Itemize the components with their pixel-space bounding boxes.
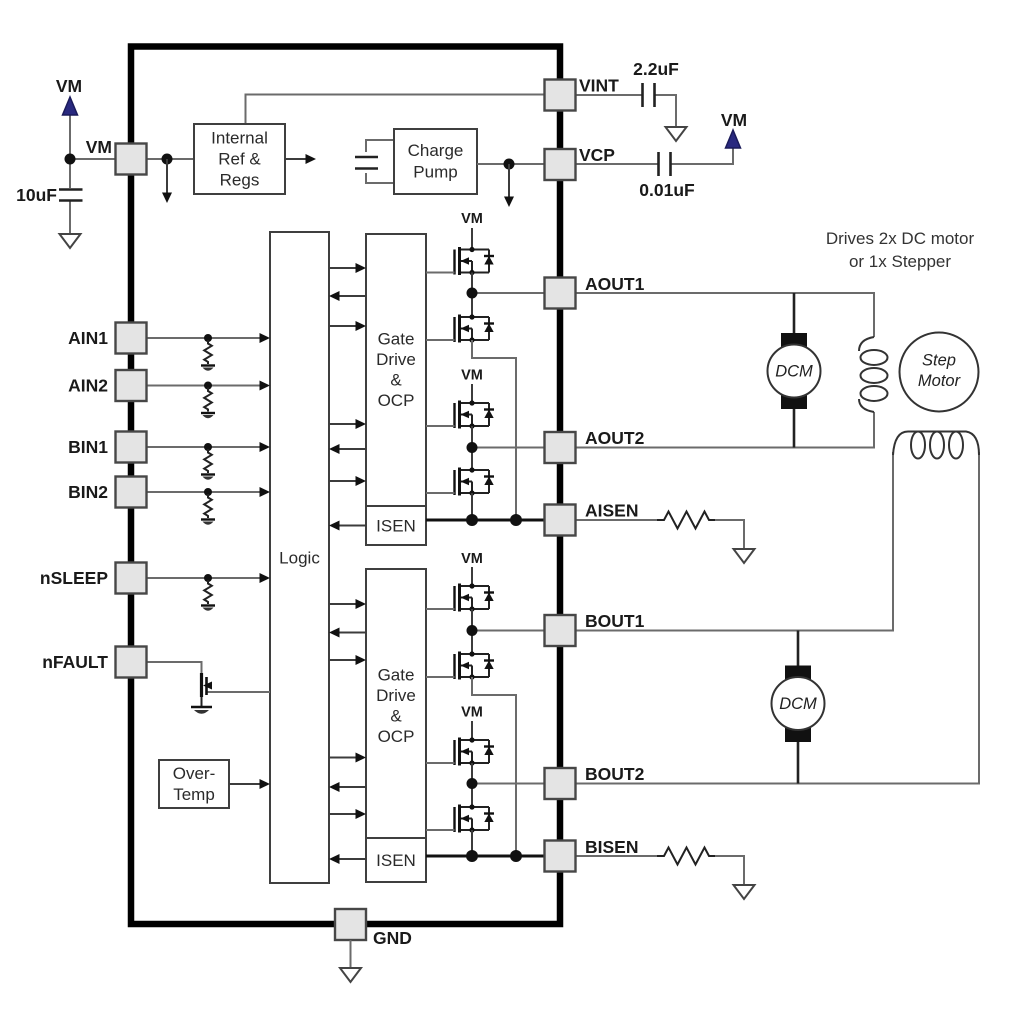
- inductor stepper winding B: [893, 432, 979, 459]
- svg-text:Temp: Temp: [173, 785, 215, 804]
- svg-text:BOUT2: BOUT2: [585, 764, 645, 784]
- svg-text:&: &: [390, 371, 402, 390]
- arrow VCP feed down: [508, 164, 510, 198]
- ground at GND pin: [340, 968, 361, 982]
- arrow internal VM feed down: [166, 159, 168, 194]
- wire M6 source to ISEN bus: [472, 677, 516, 856]
- arrow Logic to GateDrive B row6: [329, 813, 357, 815]
- block Internal Ref & Regs: [194, 124, 285, 194]
- wire M3 gate: [426, 425, 455, 427]
- node BOUT1: [467, 625, 478, 636]
- arrow Logic to GateDrive A row4: [329, 423, 357, 425]
- block Over-Temp: [159, 760, 229, 808]
- wire sense resistor A to ground: [715, 520, 744, 549]
- pulldown resistor AIN2: [201, 382, 215, 419]
- node VM external: [65, 154, 76, 165]
- wire M1 source to M2 drain: [471, 273, 473, 318]
- svg-text:0.01uF: 0.01uF: [639, 180, 695, 200]
- svg-text:GND: GND: [373, 928, 412, 948]
- svg-text:VM: VM: [461, 211, 483, 227]
- ground at nFAULT FET: [191, 707, 212, 714]
- node ISEN B at bypass: [510, 850, 522, 862]
- svg-text:BIN1: BIN1: [68, 437, 108, 457]
- svg-text:Over-: Over-: [173, 764, 216, 783]
- wire nFAULT to open-drain FET: [147, 662, 202, 674]
- wire BOUT2 to stepper winding B: [576, 452, 980, 784]
- ground below 10uF: [60, 234, 81, 248]
- svg-text:OCP: OCP: [378, 391, 415, 410]
- motor DCM A body: [768, 345, 821, 398]
- arrow Logic to GateDrive A row1: [329, 267, 357, 269]
- arrow Logic to GateDrive B row4: [329, 757, 357, 759]
- wire M2 gate: [426, 339, 455, 341]
- wire GND pin to ground: [350, 940, 352, 968]
- wire AIN2 to Logic: [147, 385, 263, 387]
- pulldown resistor BIN1: [201, 443, 215, 480]
- pin BIN1: [116, 432, 147, 463]
- pulldown resistor BIN2: [201, 488, 215, 525]
- wire VCP pin to 0.01uF: [576, 148, 734, 164]
- svg-text:BIN2: BIN2: [68, 482, 108, 502]
- wire nSLEEP to Logic: [147, 577, 263, 579]
- svg-text:VM: VM: [461, 705, 483, 721]
- svg-text:OCP: OCP: [378, 727, 415, 746]
- svg-text:or 1x Stepper: or 1x Stepper: [849, 252, 951, 271]
- svg-text:Ref &: Ref &: [218, 150, 261, 169]
- wire VM to M1 drain: [471, 228, 473, 250]
- wire VINT from Internal Regs: [246, 95, 546, 125]
- arrow GateDrive B to Logic row2: [338, 632, 366, 634]
- pin AIN1: [116, 323, 147, 354]
- wire M2 source to ISEN bus: [472, 340, 516, 520]
- block Gate Drive & OCP B: [366, 569, 426, 838]
- svg-text:AIN1: AIN1: [68, 328, 108, 348]
- wire BIN1 to Logic: [147, 446, 263, 448]
- arrow Logic to GateDrive A row3: [329, 325, 357, 327]
- transistor M2 low-side A1: [455, 314, 495, 342]
- svg-text:Drives 2x DC motor: Drives 2x DC motor: [826, 229, 975, 248]
- svg-text:AOUT1: AOUT1: [585, 274, 645, 294]
- wire ISEN A bus to AISEN pin: [426, 519, 545, 522]
- block Charge Pump: [394, 129, 477, 194]
- wire M8 source to ISEN bus: [471, 830, 473, 856]
- node BOUT2: [467, 778, 478, 789]
- wire M5 source to M6 drain: [471, 609, 473, 654]
- pulldown resistor nSLEEP: [201, 574, 215, 611]
- arrow GateDrive B to Logic row5: [338, 786, 366, 788]
- svg-text:Charge: Charge: [408, 141, 464, 160]
- pin nSLEEP: [116, 563, 147, 594]
- wire AOUT1 to stepper winding A: [576, 293, 875, 337]
- svg-text:VM: VM: [461, 551, 483, 567]
- transistor nFAULT open-drain: [202, 673, 213, 706]
- arrow ISEN B to Logic: [338, 858, 366, 860]
- IC package outline: [131, 47, 560, 925]
- pin BISEN: [545, 841, 576, 872]
- motor DCM A brushes: [781, 333, 807, 347]
- wire DCM A bottom lead: [793, 407, 796, 448]
- svg-text:Drive: Drive: [376, 350, 416, 369]
- svg-text:Pump: Pump: [413, 163, 457, 182]
- svg-text:Logic: Logic: [279, 549, 320, 568]
- arrow ISEN A to Logic: [338, 525, 366, 527]
- wire charge pump to VCP pin: [477, 163, 545, 165]
- svg-text:2.2uF: 2.2uF: [633, 59, 679, 79]
- svg-text:Motor: Motor: [918, 372, 962, 390]
- arrow Over-Temp to Logic: [229, 783, 262, 785]
- pin VCP: [545, 149, 576, 180]
- wire VINT pin to 2.2uF: [576, 95, 677, 126]
- transistor M8 low-side B2: [455, 804, 495, 832]
- ground at BISEN resistor: [734, 885, 755, 899]
- pin BOUT2: [545, 768, 576, 799]
- svg-text:VM: VM: [461, 368, 483, 384]
- wire node to BOUT2 pin: [472, 783, 545, 785]
- wire M4 source to ISEN bus: [471, 493, 473, 520]
- wire M5 gate: [426, 608, 455, 610]
- wire node to AOUT1 pin: [472, 292, 545, 294]
- wire M7 gate: [426, 762, 455, 764]
- wire BOUT1 to stepper winding B: [576, 452, 894, 631]
- block ISEN A: [366, 506, 426, 545]
- wire VM supply to VM pin: [70, 115, 194, 159]
- svg-text:&: &: [390, 707, 402, 726]
- svg-text:VM: VM: [56, 76, 82, 96]
- svg-text:Gate: Gate: [378, 330, 415, 349]
- node VCP: [504, 159, 515, 170]
- pin AOUT2: [545, 432, 576, 463]
- wire BISEN pin to sense resistor: [576, 855, 658, 857]
- arrow from Internal Regs: [285, 158, 308, 160]
- wire M4 gate: [426, 492, 455, 494]
- node ISEN A at M4: [466, 514, 478, 526]
- wire M8 gate: [426, 829, 455, 831]
- arrow Logic to GateDrive B row1: [329, 603, 357, 605]
- resistor BISEN sense: [657, 848, 715, 865]
- block Logic: [270, 232, 329, 883]
- wire VM to M7 drain: [471, 721, 473, 740]
- transistor M4 low-side A2: [455, 467, 495, 495]
- node AOUT1: [467, 288, 478, 299]
- arrow GateDrive A to Logic row2: [338, 295, 366, 297]
- svg-text:VCP: VCP: [579, 145, 615, 165]
- svg-text:VINT: VINT: [579, 76, 619, 96]
- VM supply triangle at VCP cap: [726, 130, 741, 148]
- wire DCM A top lead: [793, 293, 796, 335]
- block ISEN B: [366, 838, 426, 882]
- svg-text:nFAULT: nFAULT: [42, 652, 108, 672]
- node ISEN B at M8: [466, 850, 478, 862]
- capacitor 10uF plates: [59, 190, 83, 201]
- pulldown resistor AIN1: [201, 334, 215, 371]
- transistor M1 high-side A1: [455, 247, 495, 275]
- wire AISEN pin to sense resistor: [576, 519, 658, 521]
- capacitor 2.2uF: [643, 83, 655, 107]
- pin GND: [335, 909, 366, 940]
- wire VM to M3 drain: [471, 384, 473, 403]
- charge pump flying capacitor: [366, 140, 394, 183]
- svg-text:Step: Step: [922, 352, 956, 370]
- wire nFAULT gate to Logic: [207, 691, 270, 693]
- motor DCM B brushes: [785, 666, 811, 680]
- wire ISEN B bus to BISEN pin: [426, 855, 545, 858]
- pin VM: [116, 144, 147, 175]
- wire M6 gate: [426, 676, 455, 678]
- transistor M3 high-side A2: [455, 400, 495, 428]
- wire sense resistor B to ground: [715, 856, 744, 885]
- node AOUT2: [467, 442, 478, 453]
- pin AISEN: [545, 505, 576, 536]
- wire M1 gate: [426, 272, 455, 274]
- pin VINT: [545, 80, 576, 111]
- VM supply triangle top-left: [63, 97, 78, 115]
- svg-text:Regs: Regs: [220, 171, 260, 190]
- pin nFAULT: [116, 647, 147, 678]
- svg-text:VM: VM: [86, 137, 112, 157]
- svg-text:ISEN: ISEN: [376, 517, 416, 536]
- wire BIN2 to Logic: [147, 491, 263, 493]
- svg-text:DCM: DCM: [779, 695, 817, 713]
- wire DCM B bottom lead: [797, 740, 800, 784]
- arrow Logic to GateDrive A row6: [329, 480, 357, 482]
- svg-text:AIN2: AIN2: [68, 376, 108, 396]
- wire M3 source to M4 drain: [471, 426, 473, 470]
- motor DCM B body: [772, 677, 825, 730]
- pin AIN2: [116, 370, 147, 401]
- wire 10uF cap to ground: [69, 201, 71, 234]
- svg-text:Drive: Drive: [376, 686, 416, 705]
- node ISEN A at bypass: [510, 514, 522, 526]
- motor Step Motor body: [900, 333, 979, 412]
- wire VM node to 10uF cap: [69, 159, 71, 188]
- svg-text:AOUT2: AOUT2: [585, 428, 645, 448]
- transistor M6 low-side B1: [455, 651, 495, 679]
- wire AOUT2 to stepper winding A: [576, 412, 875, 448]
- svg-text:DCM: DCM: [775, 363, 813, 381]
- wire M7 source to M8 drain: [471, 763, 473, 807]
- block Gate Drive & OCP A: [366, 234, 426, 506]
- wire node to BOUT1 pin: [472, 630, 545, 632]
- svg-text:10uF: 10uF: [16, 185, 57, 205]
- pin AOUT1: [545, 278, 576, 309]
- svg-text:VM: VM: [721, 110, 747, 130]
- wire VM to M5 drain: [471, 567, 473, 586]
- svg-text:Internal: Internal: [211, 129, 268, 148]
- svg-text:BISEN: BISEN: [585, 837, 638, 857]
- pin BIN2: [116, 477, 147, 508]
- svg-text:AISEN: AISEN: [585, 501, 638, 521]
- svg-text:BOUT1: BOUT1: [585, 611, 645, 631]
- resistor AISEN sense: [657, 512, 715, 529]
- capacitor 0.01uF: [659, 152, 671, 176]
- arrow Logic to GateDrive B row3: [329, 659, 357, 661]
- arrow GateDrive A to Logic row5: [338, 448, 366, 450]
- node VM internal: [162, 154, 173, 165]
- pin BOUT1: [545, 615, 576, 646]
- wire AIN1 to Logic: [147, 337, 263, 339]
- inductor stepper winding A: [859, 337, 888, 412]
- wire node to AOUT2 pin: [472, 447, 545, 449]
- ground below 2.2uF: [666, 127, 687, 141]
- ground at AISEN resistor: [734, 549, 755, 563]
- wire DCM B top lead: [797, 631, 800, 668]
- svg-text:Gate: Gate: [378, 666, 415, 685]
- svg-text:nSLEEP: nSLEEP: [40, 568, 108, 588]
- transistor M7 high-side B2: [455, 737, 495, 765]
- transistor M5 high-side B1: [455, 583, 495, 611]
- svg-text:ISEN: ISEN: [376, 851, 416, 870]
